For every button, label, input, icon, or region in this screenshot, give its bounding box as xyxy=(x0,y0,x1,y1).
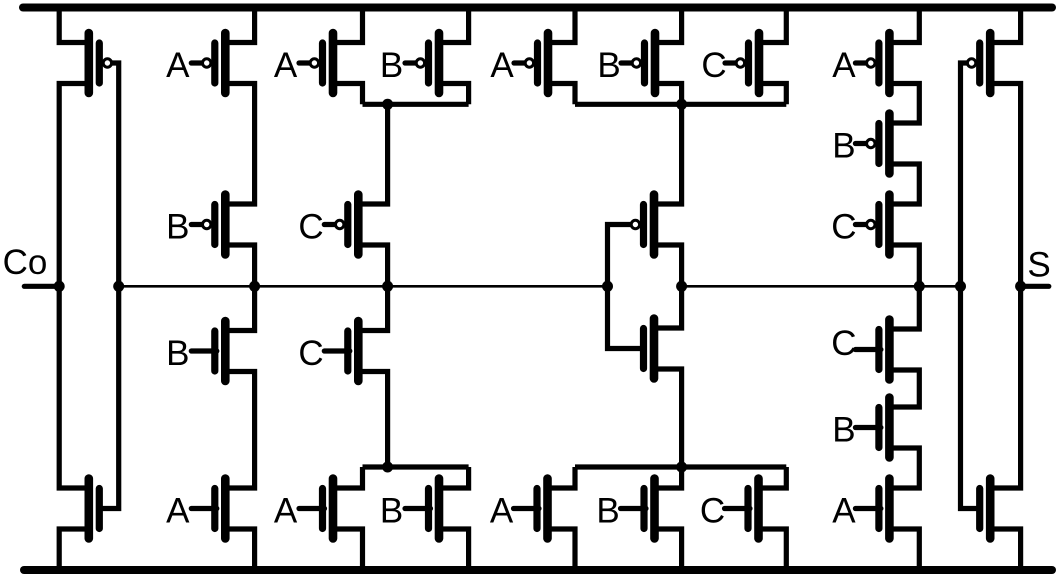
transistor N8 (NMOS gate A) xyxy=(514,479,548,539)
junction PMOS bus to P6 xyxy=(382,99,393,110)
wire P4 drain to PMOS parallel bus xyxy=(333,84,363,105)
svg-text:B: B xyxy=(166,208,189,247)
wire P10 drain to sum-bar node xyxy=(654,245,682,286)
wire P14 source to VDD xyxy=(990,8,1020,43)
transistor N5 (NMOS gate A) xyxy=(299,479,333,539)
wire P12 drain to P13 source xyxy=(889,164,919,204)
wire P5 source to VDD xyxy=(439,8,469,43)
svg-text:C: C xyxy=(700,492,725,531)
transistor P1 (Co inverter PMOS) xyxy=(89,33,112,93)
transistor N2 (NMOS gate B) xyxy=(191,321,225,381)
transistor P4 (PMOS gate A) xyxy=(299,33,333,93)
wire N10 source to GND xyxy=(759,529,787,570)
transistor P5 (PMOS gate B) xyxy=(405,33,439,93)
svg-text:A: A xyxy=(166,46,190,85)
junction sum-bar at middle pair xyxy=(676,281,687,292)
transistor N11 (NMOS gate C) xyxy=(855,320,889,380)
transistor P2 (PMOS gate A) xyxy=(191,33,225,93)
wire N5 drain to NMOS parallel bus xyxy=(333,467,363,488)
transistor P3 (PMOS gate B) xyxy=(191,195,225,255)
svg-text:C: C xyxy=(701,46,726,85)
transistor P9 (PMOS gate C) xyxy=(725,33,759,93)
wire NMOS sum bus section 4 xyxy=(575,464,786,469)
wire P14 drain to N14 drain (S output node) xyxy=(990,84,1020,489)
transistor P11 (PMOS gate A) xyxy=(855,33,889,93)
junction S output node xyxy=(1015,281,1026,292)
wire P9 drain to PMOS sum bus xyxy=(759,84,786,105)
transistor P6 (PMOS gate C) xyxy=(324,195,358,255)
svg-text:A: A xyxy=(490,492,514,531)
transistor P14 (S inverter PMOS) xyxy=(967,33,990,93)
junction sum-bar at inverter gate xyxy=(955,281,966,292)
transistor N4 (NMOS gate C) xyxy=(324,321,358,381)
junction Co output node xyxy=(54,281,65,292)
wire inverter gate P14-N14 (sum-bar input) xyxy=(961,63,980,509)
svg-text:A: A xyxy=(832,46,856,85)
node Co terminal stub xyxy=(24,284,59,289)
wire P6 drain to carry-bar node xyxy=(358,245,387,286)
transistor N7 (NMOS gate carry-bar) xyxy=(644,319,655,379)
transistor N13 (NMOS gate A) xyxy=(855,479,889,539)
wire N13 source to GND xyxy=(889,529,919,570)
wire N2 source to N3 drain xyxy=(225,372,254,489)
wire P6 source to parallel bus xyxy=(358,104,387,204)
transistor N12 (NMOS gate B) xyxy=(855,398,889,458)
svg-text:A: A xyxy=(490,46,514,85)
wire P2 source to VDD xyxy=(225,8,254,43)
transistor P13 (PMOS gate C) xyxy=(855,195,889,255)
wire N9 drain to NMOS sum bus xyxy=(655,467,682,488)
wire N8 drain to NMOS sum bus xyxy=(548,467,576,488)
wire P13 drain to N11 drain via sum-bar xyxy=(889,245,919,329)
wire N4 source to NMOS parallel bus xyxy=(358,372,387,468)
wire N14 source to GND xyxy=(990,529,1020,570)
wire P8 drain to PMOS sum bus xyxy=(655,84,682,105)
transistor P8 (PMOS gate B) xyxy=(621,33,655,93)
svg-text:B: B xyxy=(380,46,403,85)
wire N8 source to GND xyxy=(548,529,576,570)
svg-text:B: B xyxy=(597,46,620,85)
transistor P7 (PMOS gate A) xyxy=(514,33,548,93)
wire N4 drain to carry-bar node xyxy=(358,286,387,330)
transistor N10 (NMOS gate C) xyxy=(725,479,759,539)
wire N7 drain to sum-bar node xyxy=(654,286,682,328)
wire P7 drain to PMOS sum bus xyxy=(548,84,575,105)
transistor P12 (PMOS gate B) xyxy=(855,114,889,174)
transistor P10 (PMOS gate carry-bar) xyxy=(631,195,654,255)
wire N7 source to NMOS sum bus xyxy=(654,369,682,467)
VDD rail (top power supply) xyxy=(23,4,1052,12)
transistor N3 (NMOS gate A) xyxy=(191,479,225,539)
wire N3 source to GND xyxy=(225,529,254,570)
svg-text:A: A xyxy=(274,46,298,85)
svg-text:A: A xyxy=(274,492,298,531)
wire N11 source to N12 drain xyxy=(889,370,919,407)
wire P2 drain to P3 source xyxy=(225,84,254,205)
svg-text:C: C xyxy=(831,324,856,363)
svg-text:Co: Co xyxy=(3,243,48,282)
wire sum-bar internal node (thin line) xyxy=(682,285,961,288)
wire P10 source to PMOS sum bus xyxy=(654,104,682,204)
svg-text:S: S xyxy=(1027,246,1050,285)
wire P8 source to VDD xyxy=(655,8,682,43)
wire N1 source to GND xyxy=(59,529,89,570)
node S terminal stub xyxy=(1021,284,1049,289)
svg-text:C: C xyxy=(298,334,323,373)
wire PMOS sum bus section 4 xyxy=(575,102,786,107)
wire N12 source to N13 drain xyxy=(889,448,919,488)
transistor N1 (Co inverter NMOS) xyxy=(89,479,100,539)
wire N6 source to GND xyxy=(439,529,469,570)
svg-text:B: B xyxy=(596,492,619,531)
svg-text:B: B xyxy=(832,411,855,450)
junction NMOS sum bus to N7 xyxy=(676,462,687,473)
wire N6 drain to NMOS parallel bus xyxy=(439,467,469,488)
GND rail (bottom power supply) xyxy=(24,566,1052,574)
wire N5 source to GND xyxy=(333,529,363,570)
wire P1 drain to N1 drain (Co output node) xyxy=(59,84,89,489)
wire P5 drain to PMOS parallel bus xyxy=(439,84,469,105)
svg-text:B: B xyxy=(166,334,189,373)
wire carry-bar internal node (thin line) xyxy=(119,285,608,288)
wire P11 drain to P12 source xyxy=(889,84,919,124)
junction PMOS sum bus to P10 xyxy=(676,99,687,110)
junction carry-bar at inverter gate xyxy=(113,281,124,292)
transistor N6 (NMOS gate B) xyxy=(405,479,439,539)
wire P3 drain to N2 drain via carry-bar node xyxy=(225,245,254,331)
wire P9 source to VDD xyxy=(759,8,786,43)
svg-text:B: B xyxy=(380,492,403,531)
junction carry-bar to P10-N7 gates xyxy=(602,281,613,292)
wire P11 source to VDD xyxy=(889,8,919,43)
junction sum-bar right stack xyxy=(914,281,925,292)
wire P4 source to VDD xyxy=(333,8,363,43)
wire PMOS parallel bus section 3 xyxy=(363,102,469,107)
svg-text:A: A xyxy=(166,492,190,531)
wire NMOS parallel bus section 3 xyxy=(363,464,469,469)
junction carry-bar section 3 xyxy=(382,281,393,292)
svg-text:C: C xyxy=(831,208,856,247)
wire P7 source to VDD xyxy=(548,8,575,43)
wire P1 source to VDD xyxy=(59,8,89,43)
junction NMOS bus to N4 xyxy=(382,462,393,473)
svg-text:B: B xyxy=(832,127,855,166)
wire P10-N7 gates to carry-bar xyxy=(608,225,644,349)
svg-text:A: A xyxy=(832,492,856,531)
wire inverter gate P1-N1 (carry-bar input) xyxy=(99,63,118,509)
transistor N9 (NMOS gate B) xyxy=(621,479,655,539)
junction carry-bar section 2 xyxy=(249,281,260,292)
svg-text:C: C xyxy=(298,208,323,247)
wire N10 drain to NMOS sum bus xyxy=(759,467,787,488)
wire N9 source to GND xyxy=(655,529,682,570)
transistor N14 (S inverter NMOS) xyxy=(980,479,991,539)
